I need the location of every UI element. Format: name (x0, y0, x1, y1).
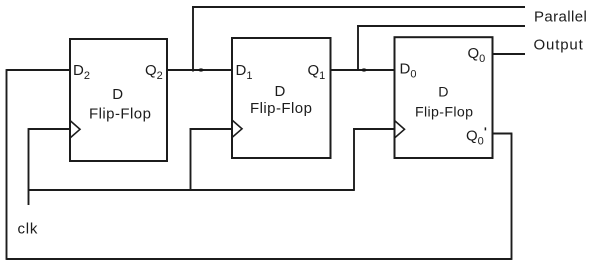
U2 name label "D Flip-Flop" (250, 83, 312, 117)
wire: clk vertical stub (28, 128, 30, 205)
wire: riser from clock bus to U2 clock (190, 128, 192, 190)
svg-text:D: D (438, 85, 449, 101)
junction on Q1 net (361, 68, 366, 71)
wire: left feedback vertical (6, 69, 8, 260)
wire: clk into U1 clock pin (29, 128, 71, 130)
wire: Q0 output (493, 53, 526, 55)
svg-text:Parallel: Parallel (534, 9, 587, 26)
wire: clock bus horizontal (29, 189, 355, 191)
svg-text:D: D (112, 86, 123, 103)
svg-text:Flip-Flop: Flip-Flop (250, 100, 312, 117)
wire: Q0' output stub (493, 133, 513, 135)
flip-flop U2 body (232, 38, 331, 158)
U1 clock edge triangle (70, 121, 80, 139)
wire: Q2 riser to parallel bus (192, 6, 194, 71)
U3 clock edge triangle (395, 121, 405, 139)
wire: into U2 clock pin (190, 128, 232, 130)
wire: parallel output line from Q2 (192, 6, 525, 8)
wire: parallel output line from Q1 (357, 25, 525, 27)
svg-text:clk: clk (18, 221, 39, 238)
wire: bottom feedback horizontal (7, 258, 512, 260)
wire: D2 input (feedback to U1 D input) (7, 69, 71, 71)
wire: riser from clock bus to U3 clock (353, 128, 355, 191)
wire: Q1 riser to parallel bus (357, 25, 359, 71)
flip-flop U1 body (70, 39, 167, 161)
U3 name label "D Flip-Flop" (415, 85, 473, 121)
wire: into U3 clock pin (353, 128, 394, 130)
svg-text:Flip-Flop: Flip-Flop (89, 106, 151, 123)
wire: Q2 to D1 (167, 69, 232, 71)
svg-text:D: D (275, 83, 286, 100)
wire: right feedback vertical (511, 134, 513, 260)
wire: Q1 to D0 (331, 69, 395, 71)
flip-flop U3 body (395, 37, 493, 158)
junction on Q2 net (198, 68, 203, 71)
svg-text:Flip-Flop: Flip-Flop (415, 104, 473, 120)
svg-text:Output: Output (534, 37, 584, 54)
U2 clock edge triangle (232, 120, 242, 138)
U1 name label "D Flip-Flop" (89, 86, 151, 123)
